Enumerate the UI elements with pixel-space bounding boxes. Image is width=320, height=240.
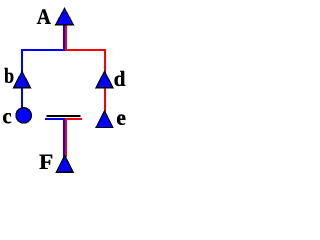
wire e-side lower horizontal (red) joining to center drop bbox=[66, 119, 82, 157]
label b bbox=[4, 68, 13, 83]
wire A down (blue) then left to b then down to c bbox=[22, 24, 64, 110]
label d bbox=[114, 71, 125, 86]
wire c-side lower horizontal (blue) joining to center drop bbox=[45, 119, 64, 157]
node A triangle bbox=[56, 8, 74, 24]
node e triangle bbox=[96, 111, 113, 128]
label A bbox=[37, 9, 51, 23]
node F triangle bbox=[56, 155, 73, 172]
label c bbox=[3, 113, 11, 123]
black bar over junction bbox=[47, 115, 81, 117]
node c circle bbox=[16, 108, 31, 123]
node b triangle bbox=[14, 71, 31, 88]
label F bbox=[39, 155, 52, 169]
label e bbox=[117, 114, 125, 124]
node d triangle bbox=[96, 71, 113, 88]
wire A down (red) then right to d then down to e bbox=[66, 24, 105, 112]
